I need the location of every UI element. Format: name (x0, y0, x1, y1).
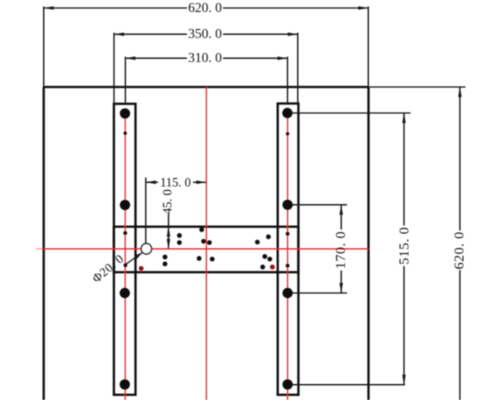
svg-text:115. 0: 115. 0 (160, 175, 191, 189)
svg-text:45. 0: 45. 0 (160, 189, 174, 214)
svg-text:310. 0: 310. 0 (188, 50, 222, 65)
svg-text:350. 0: 350. 0 (188, 26, 222, 41)
svg-text:515. 0: 515. 0 (398, 227, 413, 265)
svg-text:170. 0: 170. 0 (334, 231, 349, 269)
svg-text:620. 0: 620. 0 (453, 231, 468, 269)
svg-text:620. 0: 620. 0 (188, 0, 222, 15)
